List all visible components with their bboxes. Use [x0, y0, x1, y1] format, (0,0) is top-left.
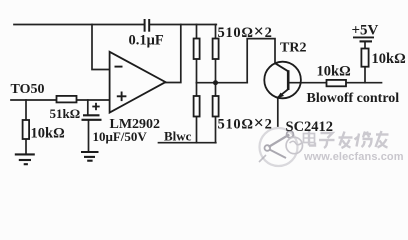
wire feedback to inverting input — [92, 25, 109, 70]
svg-text:10kΩ: 10kΩ — [31, 126, 65, 142]
友 — [376, 131, 389, 148]
svg-text:Blwc: Blwc — [164, 129, 192, 144]
transistor collector diagonal — [275, 63, 288, 71]
transistor emitter diagonal — [278, 89, 288, 97]
wire +5V branch — [364, 42, 366, 83]
background paper — [0, 0, 408, 168]
svg-text:SC2412: SC2412 — [286, 119, 334, 135]
烧 — [355, 132, 372, 148]
svg-text:51kΩ: 51kΩ — [50, 106, 81, 121]
wire cap C2 stubs — [87, 100, 90, 151]
capacitor 10uF plus sign — [92, 103, 99, 110]
wire base to 10k — [289, 82, 382, 84]
resistor 10k left box — [23, 120, 30, 139]
ground under 10k — [15, 154, 35, 164]
发 — [339, 132, 353, 149]
ground under 10uF cap — [81, 152, 99, 161]
node junction dot — [213, 80, 218, 85]
电 — [304, 131, 316, 146]
resistor chain2 upper box — [213, 39, 219, 60]
wire chain1 vertical — [196, 25, 198, 143]
子 — [319, 133, 335, 148]
svg-text:LM2902: LM2902 — [110, 117, 161, 132]
resistor chain1 upper box — [194, 39, 200, 60]
svg-text:TR2: TR2 — [280, 41, 306, 56]
svg-text:10kΩ: 10kΩ — [372, 51, 406, 67]
watermark big elecfans logo circle — [260, 128, 298, 166]
wire mid rail to transistor collector — [247, 39, 275, 83]
resistor chain1 lower box — [194, 96, 200, 117]
wire mid rail — [197, 82, 248, 84]
transistor base bar — [287, 70, 290, 90]
transistor TR2 circle — [264, 62, 301, 99]
op-amp U1 triangle — [110, 52, 166, 113]
watermark small elecfans logo circle — [286, 137, 302, 153]
svg-text:+5V: +5V — [352, 23, 379, 39]
wire op-amp output to top rail riser — [165, 25, 180, 83]
svg-text:10kΩ: 10kΩ — [317, 63, 351, 79]
wire emitter down — [277, 98, 279, 126]
wire Blwc bottom rail — [159, 142, 216, 144]
wire chain2 vertical — [215, 25, 217, 143]
op-amp plus sign — [117, 92, 127, 102]
svg-text:0.1μF: 0.1μF — [129, 33, 164, 49]
transistor emitter arrowhead — [277, 93, 285, 99]
svg-text:www.elecfans.com: www.elecfans.com — [303, 151, 404, 163]
watermark chinese characters 电子发烧友 — [304, 131, 389, 148]
watermark big logo swirl strokes — [259, 131, 293, 162]
resistor 10k right vertical box — [361, 49, 368, 67]
wire top feedback rail — [14, 24, 216, 26]
capacitor 0.1uF plates — [145, 19, 150, 32]
op-amp minus sign — [115, 66, 123, 68]
resistor 10k horizontal box — [327, 80, 347, 86]
+5V terminal bars — [353, 37, 374, 41]
capacitor 10uF plates — [82, 115, 102, 120]
svg-text:Blowoff control: Blowoff control — [307, 91, 400, 106]
resistor chain2 lower box — [213, 96, 219, 117]
wire TO50 input — [11, 99, 109, 101]
svg-text:TO50: TO50 — [11, 82, 45, 97]
resistor 51k box — [57, 96, 77, 103]
wire 10k drop — [25, 100, 27, 154]
